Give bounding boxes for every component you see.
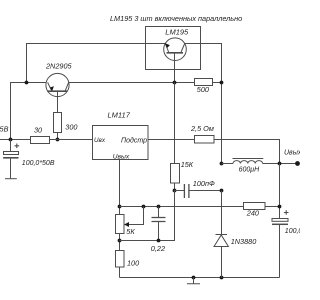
resistor R240 [244,203,266,210]
svg-text:100пФ: 100пФ [193,179,215,188]
wire bottom feedback rail y241 [120,191,175,241]
wire R100 bottom to ground rail [119,267,121,278]
transistor U1 circle [164,38,187,61]
ground center [187,278,200,284]
wire to 2N2905 [27,82,47,84]
resistor R300 vertical [54,113,62,133]
capacitor C1 stem top [10,140,12,152]
resistor R2.5om [195,136,215,144]
capacitor C1 bottom plate [3,157,18,159]
svg-text:LM117: LM117 [108,110,131,119]
wire Cout to bottom rail [279,225,281,278]
svg-text:Uвх: Uвх [94,137,106,144]
inductor L1 600uH core bar [233,158,264,160]
wire sense rail [120,206,244,208]
wire R300 bottom [57,133,59,140]
node ground junction [192,276,196,280]
wire LM117 adj down [119,160,121,215]
capacitor Cout top plate [272,219,288,222]
svg-text:LM195: LM195 [165,27,189,36]
node sense rail left junction [118,205,122,209]
potentiometer wiper wire [125,207,144,225]
svg-text:30: 30 [34,126,42,135]
capacitor C100p plates [184,184,189,198]
node C022 top junction [157,205,161,209]
capacitor C1 plus sign [15,144,20,149]
svg-text:LM195 3 шт включенных параллел: LM195 3 шт включенных параллельно [110,14,242,23]
transistor Q1 emitter arrow PNP [50,86,54,91]
wire R240 right to output node [265,206,280,208]
LM117 regulator box [93,126,149,160]
resistor R30 [31,137,50,144]
capacitor C022 plates [152,218,166,222]
transistor Q1 base down lead [57,91,59,112]
transistor Q1 left lead [48,82,52,90]
inductor L1 600uH humps [233,161,263,164]
node diode bottom junction [220,276,224,280]
transistor U1 emitter arrow [165,43,170,48]
transistor U1 base bar [167,52,184,54]
diode D1 triangle [214,235,228,247]
wire R15K bottom [174,183,176,191]
svg-text:15К: 15К [181,160,194,169]
transistor Q1 right lead [65,82,68,90]
wire output branch x279 [279,164,281,219]
node inductor right junction [278,162,282,166]
node R240 right junction [278,205,282,209]
wire inductor right [263,163,298,165]
capacitor C1 top plate [4,152,19,155]
node junction top-left [25,81,29,85]
node output terminal [295,161,300,166]
resistor R15K vertical [171,164,180,184]
svg-text:100,0: 100,0 [285,228,300,235]
node R300 rail junction [56,138,60,142]
wire R500 right [213,82,222,84]
svg-text:600μН: 600μН [239,166,261,173]
potentiometer wiper arrow [124,222,129,227]
svg-text:5К: 5К [126,227,135,236]
svg-text:240: 240 [246,209,259,218]
capacitor Cout plus sign [284,210,289,215]
svg-text:100,0*50В: 100,0*50В [22,160,55,167]
diode D1 cathode bar [216,234,228,236]
wire R30 to LM117 [50,139,93,141]
wire feedback vertical x174 [174,83,176,164]
svg-text:1N3880: 1N3880 [231,237,257,246]
node R500 right junction [220,81,224,85]
wire diode branch x221 [221,191,223,278]
resistor R100 vertical [116,251,125,268]
wire C100p right [189,190,222,192]
wire 2N2905 to R500 [69,82,195,84]
node LM195 emitter junction [173,81,177,85]
potentiometer R5K body [116,215,125,234]
svg-text:100: 100 [127,259,139,268]
wire R5K bottom [119,234,121,251]
wire top rail [26,43,165,45]
node R5K bottom junction [118,239,122,243]
node wiper junction [142,205,146,209]
svg-text:Подстр: Подстр [121,136,147,144]
wire main input rail [0,139,31,141]
capacitor C022 stems [158,207,160,241]
transistor Q1 base bar [47,90,67,92]
svg-text:500: 500 [197,85,209,94]
node inductor left junction [220,162,224,166]
svg-text:300: 300 [65,122,77,131]
wire to inductor [222,163,234,165]
node C100p left junction [173,189,177,193]
transistor Q1 circle [46,73,69,96]
svg-text:Uвых: Uвых [113,153,130,160]
wire top-left vertical [26,44,28,83]
svg-text:2,5 Ом: 2,5 Ом [190,124,214,133]
wire C100p left [175,190,185,192]
capacitor Cout bottom plate [272,223,288,225]
LM195 box [146,27,201,70]
wire R2.5om right to output corner [214,140,280,164]
transistor U1 right lead [181,44,185,53]
node C100p right junction [220,189,224,193]
wire bottom ground rail [120,277,280,279]
transistor U1 down lead [174,53,176,83]
svg-text:0,22: 0,22 [151,244,165,253]
wire LM117 out to R2.5 [148,139,195,141]
svg-text:Uвых: Uвых [284,150,300,157]
wire C1 to ground [10,159,12,179]
svg-text:2N2905: 2N2905 [45,61,73,70]
node input cap junction [9,138,13,142]
wire left branch to input [11,83,27,140]
transistor U1 left lead [165,44,168,53]
resistor R500 [195,79,213,86]
ground left [5,178,17,180]
svg-text:25В: 25В [0,124,9,133]
node C022 bottom junction [157,239,161,243]
wire LM195 right lead [185,44,222,164]
